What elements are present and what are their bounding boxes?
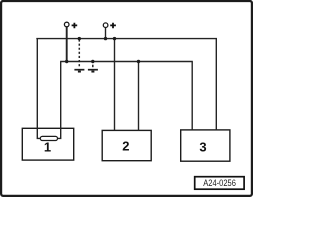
svg-text:A24-0256: A24-0256 [203, 177, 236, 188]
svg-text:2: 2 [122, 138, 129, 153]
svg-text:3: 3 [199, 140, 206, 155]
svg-text:1: 1 [44, 140, 51, 155]
